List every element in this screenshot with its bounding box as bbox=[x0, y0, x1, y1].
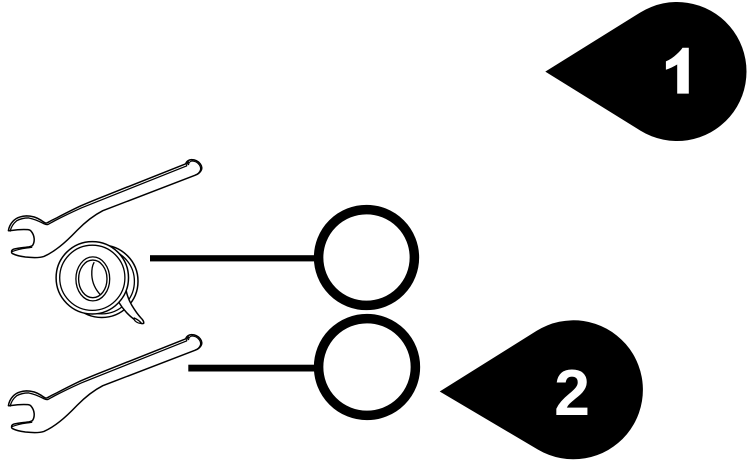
step balloon 2 bbox=[440, 320, 643, 459]
callout circle C2 (lower) bbox=[188, 319, 415, 416]
node circle 2 bbox=[319, 319, 416, 416]
balloon 1 teardrop pointer bbox=[545, 2, 746, 141]
tape tail bbox=[112, 288, 144, 324]
wire: leader line 1 bbox=[150, 255, 316, 261]
wrench W2 (lower) bbox=[1, 323, 212, 441]
node circle 1 bbox=[319, 210, 415, 306]
balloon 2 teardrop pointer bbox=[440, 320, 643, 459]
svg-text:2: 2 bbox=[554, 357, 590, 429]
tape tail curl bbox=[134, 318, 141, 323]
hub hole bbox=[76, 257, 110, 301]
front face of roll bbox=[56, 242, 128, 314]
digit 1 label bbox=[666, 48, 689, 94]
wire: leader line 2 bbox=[188, 365, 318, 372]
tape edge seen through hole bbox=[92, 262, 101, 295]
back rim of roll bbox=[66, 245, 138, 317]
wrench W1 (upper) bbox=[1, 148, 212, 266]
tape roll bbox=[56, 242, 144, 324]
callout circle C1 (upper) bbox=[150, 210, 414, 306]
step balloon 1 bbox=[545, 2, 746, 141]
